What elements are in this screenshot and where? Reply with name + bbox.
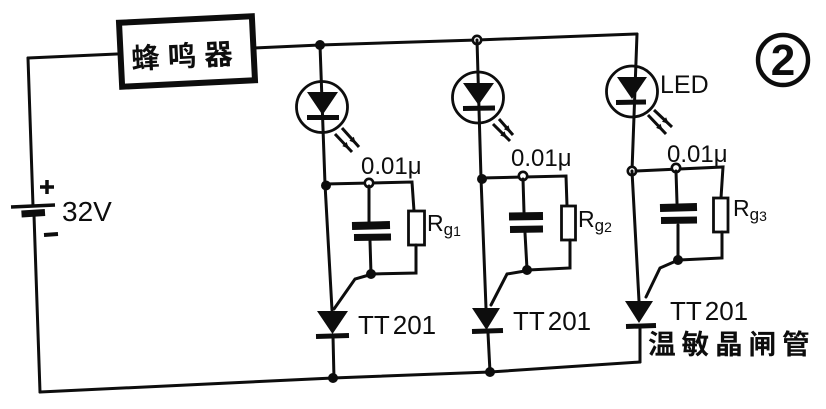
wire buzzer left to corner [28,54,117,58]
wire resistor3 bottom to junction [679,232,722,260]
capacitor C2 [509,216,543,230]
capacitor C1 [352,225,391,238]
resistor Rg1 [409,211,425,245]
wire LED2 junction to thyristor2 [481,178,486,308]
wire cap2 top lead [523,179,524,212]
battery BT 32V [11,205,55,214]
wire gate2 [491,271,525,305]
battery minus sign [44,234,58,235]
wire junction to resistor2 top [481,176,567,206]
wire gate1 [334,275,369,309]
LED D2 emission arrows [493,119,513,141]
wire thyristor1 to bottom rail [333,336,334,379]
node gate1 junction [366,269,376,279]
battery plus sign [40,180,54,194]
svg-text:TT201: TT201 [513,306,591,336]
thyristor V2 TT201 [472,308,503,332]
wire thyristor3 to bottom rail corner [639,327,642,362]
node cap1 top (open) [365,179,373,187]
svg-text:TT201: TT201 [670,296,748,326]
node branch1 top junction [315,40,325,50]
LED D1 [297,82,348,133]
LED D3 emission arrows [648,110,672,134]
wire thyristor2 to bottom rail [488,333,490,372]
svg-text:0.01μ: 0.01μ [361,153,422,180]
thyristor V3 TT201 [625,301,656,327]
node branch1 bottom junction [328,373,338,383]
thyristor V1 TT201 [316,311,349,337]
wire cap1 top lead [368,186,371,223]
LED D1 emission arrows [335,128,359,152]
node gate2 junction [522,265,532,275]
wire top rail corner through LED3 to junction [632,34,637,171]
svg-text:0.01μ: 0.01μ [511,145,572,172]
wire junction to resistor3 top [636,167,723,198]
wire battery to bottom-left corner [34,215,40,392]
wire top rail through LED1 to junction [320,45,325,184]
capacitor C3 [660,207,697,221]
node branch2 bottom junction [485,367,495,377]
svg-text:2: 2 [771,36,795,85]
node branch2 top junction (open) [473,36,481,44]
wire left vertical to battery [28,58,33,206]
buzzer B1 box [119,16,255,86]
wire cap2 bottom lead [525,233,527,269]
node cap3 top (open) [672,164,680,172]
node cap2 top rail junction [477,174,487,184]
node cap3 top rail junction (open) [628,167,636,175]
wire cap3 bottom lead [677,225,680,259]
resistor Rg3 [714,198,729,232]
node gate3 junction [673,255,683,265]
wire gate3 [646,261,676,297]
node cap2 top (open) [519,172,527,180]
wire LED3 junction to thyristor3 [632,171,639,301]
wire cap1 bottom lead [370,241,371,274]
svg-text:0.01μ: 0.01μ [667,141,728,168]
label 温敏晶闸管 [649,330,809,356]
wire bottom rail [40,362,640,392]
svg-text:TT201: TT201 [358,310,436,340]
LED D3 [607,66,658,117]
wire LED1 junction to thyristor1 [325,184,332,310]
svg-text:32V: 32V [62,196,112,227]
resistor Rg2 [562,206,576,240]
svg-text:LED: LED [660,71,709,99]
wire top rail through LED2 to junction [477,40,481,178]
node cap1 top rail junction [321,181,331,191]
figure number circle 2 [758,35,808,85]
wire resistor1 bottom to junction [372,245,416,274]
LED D2 [453,72,504,123]
wire junction to resistor1 top [325,182,414,211]
wire cap3 top lead [676,171,677,203]
buzzer label 蜂鸣器 [131,40,232,72]
wire top rail [254,34,637,48]
wire resistor2 bottom to junction [528,240,570,270]
